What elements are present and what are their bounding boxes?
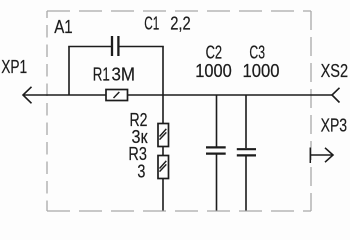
svg-text:1000: 1000 — [195, 61, 232, 81]
svg-text:C1: C1 — [144, 14, 159, 34]
capacitor C1 plates — [111, 36, 113, 56]
module boundary A1 (dashed frame, top) — [47, 10, 311, 12]
wire C2 branch lower — [216, 154, 218, 210]
connector XP3 (stub arrow pointing right) — [309, 148, 311, 164]
svg-text:3M: 3M — [112, 64, 136, 84]
svg-text:C2: C2 — [206, 43, 223, 63]
wire C3 branch upper — [245, 95, 247, 148]
svg-text:3: 3 — [137, 162, 145, 182]
resistor R1 — [106, 90, 128, 101]
wire C2 branch upper — [216, 95, 218, 147]
svg-text:1000: 1000 — [243, 61, 280, 81]
svg-text:2,2: 2,2 — [170, 14, 191, 34]
wire C1 loop top right segment — [120, 46, 164, 48]
wire main horizontal bus — [23, 94, 332, 96]
capacitor C2 plates — [206, 146, 226, 148]
connector XS2 (open fork) — [332, 88, 340, 103]
resistor R3 — [158, 156, 169, 179]
svg-text:C3: C3 — [249, 43, 265, 63]
resistor R2 — [158, 124, 169, 147]
capacitor C3 plates — [237, 148, 256, 150]
module boundary A1 (dashed frame, bottom) — [47, 210, 311, 212]
connector XP1 (arrow pointing left) — [23, 87, 32, 104]
wire C3 branch lower — [245, 156, 247, 210]
module boundary A1 (dashed frame, left) — [46, 11, 48, 211]
svg-text:XS2: XS2 — [321, 61, 349, 81]
wire C1 loop left vertical — [68, 47, 70, 96]
wire vertical branch at node (163,95) down through R2 R3 — [162, 47, 164, 211]
module boundary A1 (dashed frame, right) — [310, 11, 312, 211]
svg-text:XP1: XP1 — [1, 57, 27, 77]
svg-text:A1: A1 — [54, 17, 72, 37]
svg-text:R1: R1 — [93, 64, 110, 84]
wire C1 loop top left segment — [68, 46, 111, 48]
svg-text:XP3: XP3 — [321, 116, 348, 136]
